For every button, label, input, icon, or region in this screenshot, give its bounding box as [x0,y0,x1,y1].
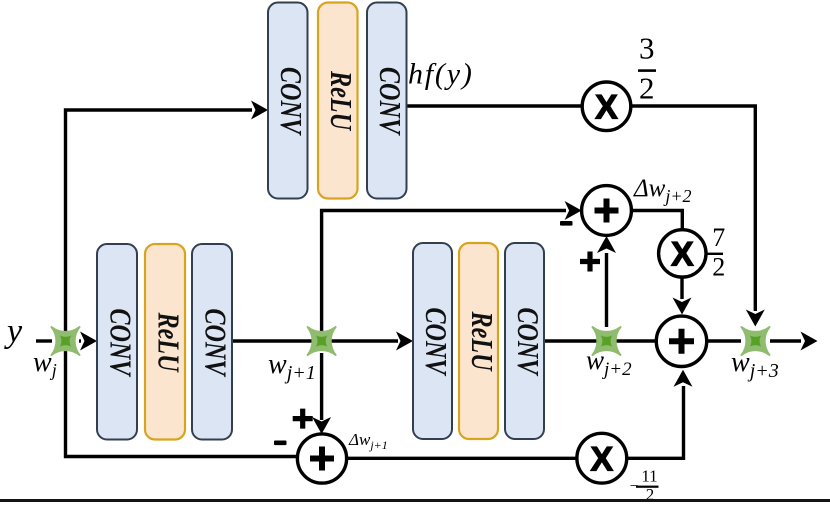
wire: multiplier M2 down to adder A2 [673,277,692,315]
wire: wj1 to second conv group arrow [322,332,413,351]
label plus at adder A3 [293,409,313,429]
adder A1 (delta wj2) [582,186,632,236]
label wj1 [268,349,316,384]
label y [4,313,23,350]
label wj2 [586,345,632,380]
svg-text:2: 2 [639,71,655,106]
svg-text:ReLU: ReLU [464,311,499,373]
label wj [33,347,57,380]
svg-text:CONV: CONV [510,307,545,376]
wire: wj down feedback branch to adder A3 [66,341,298,457]
conv block top group CONV 2 [367,3,407,199]
svg-text:11: 11 [641,467,657,486]
multiplier M1 (x 3/2) [582,82,631,131]
wire: wj2 up branch to adder A1 [597,236,616,327]
relu block top group [318,3,358,199]
svg-text:3: 3 [639,31,655,66]
wire: wj up branch to top conv group [66,101,269,342]
wire: y input to node wj [36,339,52,342]
svg-text:X: X [671,236,694,274]
node wj3 (green star) [742,327,770,355]
svg-text:CONV: CONV [372,67,407,136]
label fraction 3/2 [638,31,656,106]
conv block left group CONV 1 [97,244,137,440]
wire: output arrow after wj3 [770,332,818,351]
conv block right group CONV 2 [505,243,545,439]
conv block left group CONV 2 [192,244,232,440]
adder A2 (main output) [656,316,706,366]
wire: adder A2 to node wj3 and output arrow [707,339,742,342]
wire: left conv group to node wj1 [232,339,321,342]
svg-text:CONV: CONV [103,308,138,377]
wire: wj1 up branch to adder A1 [322,201,582,341]
node wj2 (green star) [593,327,621,355]
node wj (green star) [52,327,80,355]
wire: multiplier M1 to node wj3 (top right corner) [631,106,765,327]
svg-text:2: 2 [712,253,725,282]
label plus at adder A1 [580,252,600,272]
multiplier M3 (x -11/2) [577,433,627,483]
wire: wj1 down branch to adder A3 [312,353,331,434]
label wj3 [731,347,779,382]
wire: wj2 to adder A2 [607,339,657,342]
svg-text:CONV: CONV [418,307,453,376]
svg-text:ReLU: ReLU [323,70,358,132]
svg-text:7: 7 [712,223,725,252]
label minus at adder A1 [560,221,573,226]
wire: second conv group to node wj2 [544,339,606,342]
bottom separator line [0,499,830,502]
conv block top group CONV 1 [268,3,308,199]
label delta wj2 [633,175,692,206]
svg-text:X: X [590,441,613,479]
label hf(y) [408,58,474,91]
svg-text:CONV: CONV [273,67,308,136]
svg-text:hf(y): hf(y) [408,58,474,91]
wire: top conv group output to multiplier M1 [405,104,582,107]
relu block right group [459,243,499,439]
relu block left group [145,244,185,440]
multiplier M2 (x 7/2) [659,230,706,277]
label fraction 7/2 [708,223,726,282]
node wj1 (green star) [308,327,336,355]
wire: wj to first conv block arrow [79,332,97,351]
svg-text:CONV: CONV [198,308,233,377]
svg-text:X: X [595,89,618,127]
adder A3 (delta wj1) [297,434,346,483]
wire: adder A3 to multiplier M3 [347,457,577,460]
label delta wj1 [348,430,388,452]
svg-text:ReLU: ReLU [151,312,186,374]
wire: adder A1 to multiplier M2 [631,211,682,230]
wire: multiplier M3 up to adder A2 (bottom right corner) [627,370,693,459]
label fraction -11/2 [629,467,658,505]
conv block right group CONV 1 [413,243,453,439]
label minus at adder A3 [274,441,287,446]
svg-text:y: y [4,313,23,350]
